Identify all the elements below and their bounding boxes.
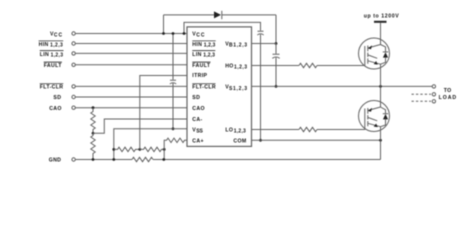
pin stub HO / wire to gate resistor: [252, 65, 300, 67]
svg-text:1,2,3: 1,2,3: [203, 53, 215, 59]
resistor R6 (HO gate): [299, 63, 317, 67]
svg-text:CC: CC: [196, 32, 205, 38]
body diode Q2: [381, 107, 386, 114]
wire CA+ corner: [164, 140, 166, 159]
svg-text:LIN: LIN: [40, 52, 49, 58]
wire FLT-CLR: [75, 85, 187, 87]
svg-text:1,2,3: 1,2,3: [50, 43, 63, 49]
wire bus to Q1 collector: [380, 23, 382, 45]
wire COM to GND rail: [380, 140, 382, 159]
svg-text:TO: TO: [444, 88, 452, 94]
capacitor C2 bootstrap VB-VS: [272, 44, 279, 87]
svg-text:LOAD: LOAD: [439, 95, 457, 101]
overline FAULT terminal: [44, 61, 62, 63]
terminal FLT-CLR: [72, 85, 75, 88]
wire C3 to VSS: [172, 83, 174, 129]
svg-text:HIN: HIN: [39, 42, 49, 48]
svg-text:LO: LO: [225, 128, 233, 134]
wire diode right down to VB: [275, 15, 277, 44]
junction VB node: [275, 42, 278, 45]
wire HO to Q1 gate: [317, 65, 365, 67]
capacitor C3 plates: [170, 80, 176, 84]
junction ITRIP-divider: [138, 148, 141, 151]
wire HIN: [75, 43, 187, 45]
terminal SD: [72, 95, 75, 98]
svg-text:B1,2,3: B1,2,3: [229, 43, 247, 49]
wire bootstrap diode top: [164, 14, 215, 16]
resistor R3 (sense divider left): [114, 147, 140, 151]
svg-text:COM: COM: [233, 139, 246, 145]
svg-text:CA+: CA+: [192, 139, 204, 145]
junction R1-R2-CAminus: [92, 132, 95, 135]
terminal FAULT: [72, 63, 75, 66]
terminal LIN: [72, 52, 75, 55]
svg-text:1,2,3: 1,2,3: [234, 128, 246, 134]
terminal GND: [72, 158, 75, 161]
wire ITRIP jog: [140, 76, 187, 150]
junction CAO-R1: [92, 106, 95, 109]
capacitor C3 (VCC-VSS) top wire: [172, 34, 174, 80]
resistor R7 (LO gate): [299, 127, 317, 131]
body diode Q1: [381, 45, 386, 52]
wire GND rail: [75, 159, 132, 161]
junction C3-VCC: [172, 32, 175, 35]
svg-text:FLT-CLR: FLT-CLR: [192, 85, 216, 91]
svg-text:up to 1200V: up to 1200V: [364, 14, 399, 20]
junction VSS-GND: [112, 158, 115, 161]
pin stub VB: [252, 43, 277, 45]
wire VCC loop to C1: [184, 22, 261, 33]
resistor R1 (vertical, CAO to CA-): [91, 108, 95, 134]
wire SD: [75, 96, 187, 98]
junction VSS-rail: [112, 148, 115, 151]
IC U1 box: [187, 27, 252, 146]
load terminal phase 1: [432, 85, 435, 88]
svg-text:LIN: LIN: [192, 52, 201, 58]
dashed phase 3: [412, 100, 432, 102]
junction C3-VSS: [172, 127, 175, 130]
dashed phase 2: [412, 93, 432, 95]
svg-text:CC: CC: [54, 32, 63, 38]
overline HIN terminal: [39, 40, 64, 42]
overline HIN pin: [192, 40, 215, 42]
wire VCC: [75, 33, 187, 35]
IGBT Q1: [359, 38, 390, 86]
pin stub LO / wire to gate resistor: [252, 129, 300, 131]
load terminal phase 2: [432, 93, 435, 96]
bootstrap diode D1: [214, 11, 221, 18]
junction C2-VS: [275, 85, 278, 88]
terminal CAO: [72, 106, 75, 109]
svg-text:SS: SS: [196, 129, 203, 135]
overline LIN terminal: [40, 50, 64, 52]
resistor R2 (vertical, to GND): [91, 133, 95, 159]
svg-text:S1,2,3: S1,2,3: [229, 86, 247, 92]
junction diode-VCC: [162, 32, 165, 35]
svg-text:HIN: HIN: [192, 42, 202, 48]
terminal VCC: [72, 32, 75, 35]
junction COM-Q2 emitter: [379, 139, 382, 142]
wire CA- jog: [93, 119, 187, 133]
junction CAplus-GND: [162, 158, 165, 161]
overline FLT-CLR terminal: [40, 83, 64, 85]
svg-text:CA-: CA-: [192, 117, 202, 123]
svg-text:HO: HO: [225, 64, 233, 70]
svg-text:SD: SD: [192, 95, 200, 101]
svg-text:FAULT: FAULT: [192, 63, 211, 69]
wire COM: [252, 139, 381, 141]
svg-text:CAO: CAO: [49, 106, 62, 112]
resistor R5 on GND rail: [132, 157, 153, 161]
wire LO to Q2 gate: [317, 129, 365, 131]
wire diode tap to VCC: [163, 15, 165, 34]
wire LIN: [75, 52, 187, 54]
wire VS line: [252, 85, 433, 87]
overline FLT-CLR pin: [192, 83, 215, 85]
HV bus bar: [374, 21, 387, 23]
svg-text:CAO: CAO: [192, 106, 205, 112]
svg-text:SD: SD: [53, 95, 61, 101]
svg-text:1,2,3: 1,2,3: [51, 53, 64, 59]
junction R4-CA+: [163, 148, 166, 151]
junction loop-VCC: [183, 32, 186, 35]
load terminal phase 3: [432, 100, 435, 103]
overline FAULT pin: [192, 61, 210, 63]
junction C1-COM: [259, 139, 262, 142]
overline LIN pin: [192, 50, 215, 52]
junction R2-GND: [92, 158, 95, 161]
IGBT Q2: [359, 101, 390, 141]
wire C1 to COM: [260, 35, 262, 141]
wire CAO: [75, 107, 187, 109]
wire FAULT: [75, 64, 187, 66]
svg-text:ITRIP: ITRIP: [192, 73, 207, 79]
svg-text:GND: GND: [49, 158, 62, 164]
svg-text:1,2,3: 1,2,3: [204, 43, 216, 49]
wire GND rail right: [153, 159, 381, 161]
resistor R4 (sense divider right): [140, 147, 164, 151]
svg-text:1,2,3: 1,2,3: [234, 64, 247, 70]
terminal HIN: [72, 42, 75, 45]
wire VSS jog: [114, 129, 187, 160]
capacitor C1 (VCC decoupling to COM): [257, 31, 263, 35]
wire Q1 emitter to Q2 collector handled above: [380, 86, 382, 107]
resistor R8 (CA+ series): [167, 138, 188, 142]
svg-text:FLT-CLR: FLT-CLR: [40, 85, 64, 91]
junction VS-Q1 emitter: [379, 85, 382, 88]
svg-text:FAULT: FAULT: [44, 63, 63, 69]
